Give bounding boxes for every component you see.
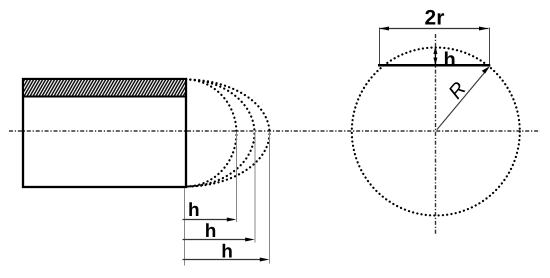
sagitta arrow h (double headed vertical) <box>434 48 436 64</box>
dimension line h1 <box>183 219 231 221</box>
extension line apex arc3 <box>269 132 271 264</box>
svg-text:h: h <box>188 200 200 221</box>
extension line left chord end <box>379 28 381 65</box>
cylinder body rectangle <box>23 79 186 187</box>
dimension line 2r <box>380 28 489 30</box>
dotted circle <box>352 48 520 216</box>
extension line apex arc2 <box>254 132 256 243</box>
extension line apex arc1 <box>236 132 238 222</box>
horizontal centerline <box>9 130 540 132</box>
svg-text:h: h <box>205 221 217 242</box>
dotted arc 1 (smallest) <box>186 80 237 187</box>
svg-text:2r: 2r <box>425 7 445 30</box>
extension line right chord end <box>489 28 491 65</box>
svg-text:h: h <box>444 49 456 71</box>
dotted arc 2 (middle) <box>186 80 255 187</box>
vertical centerline of circle <box>435 34 437 234</box>
hatched top strip <box>23 79 186 97</box>
svg-text:h: h <box>221 241 233 262</box>
dimension line h3 <box>183 259 264 261</box>
dimension line h2 <box>183 239 249 241</box>
thick chord line <box>378 64 490 67</box>
radius line R <box>437 72 485 130</box>
extension line at rectangle right edge <box>184 188 186 266</box>
dotted arc 3 (largest) <box>186 80 270 187</box>
